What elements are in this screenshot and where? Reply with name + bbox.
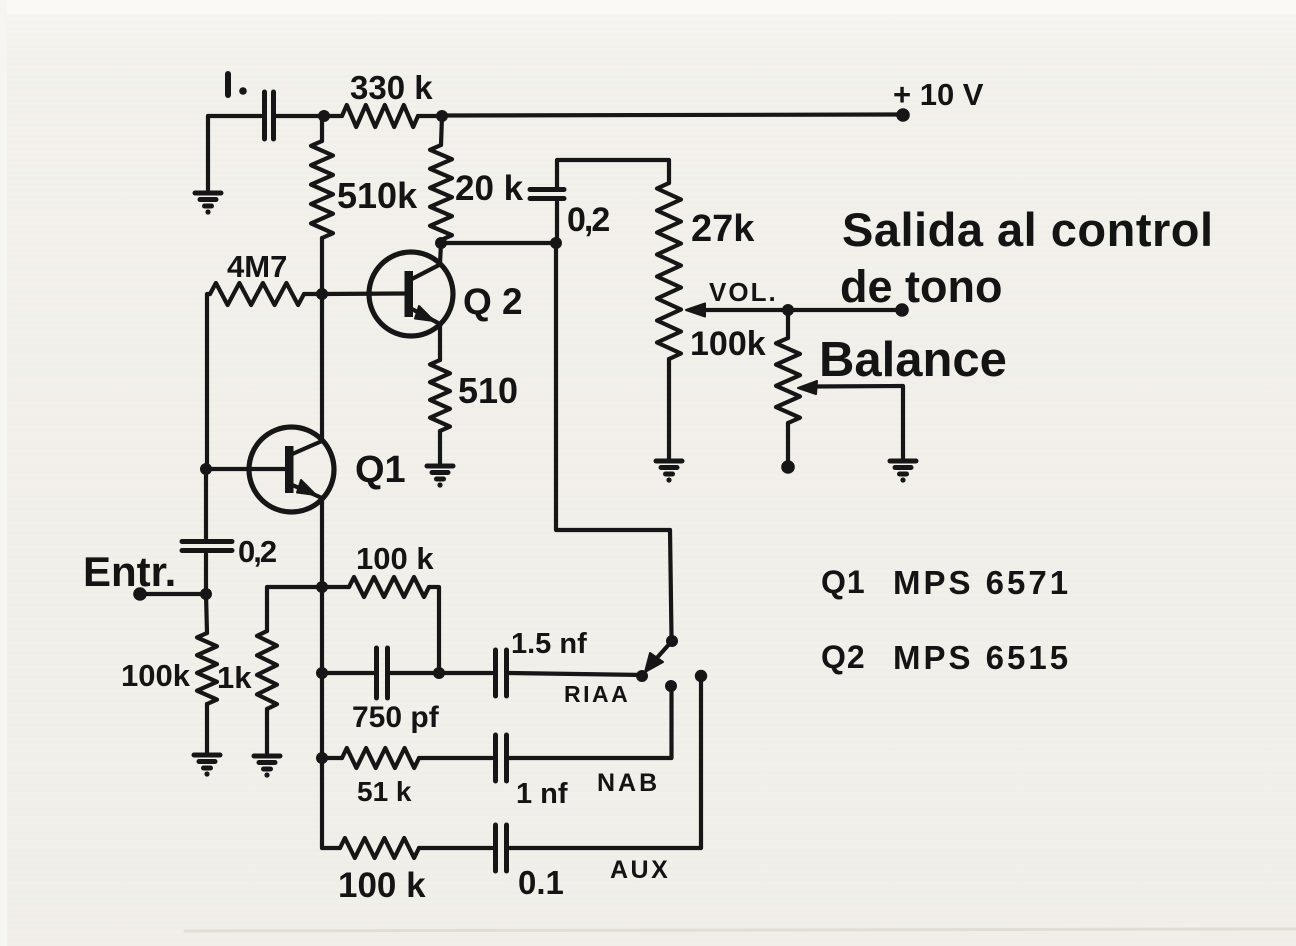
- wire node L to 51k: [322, 756, 342, 760]
- svg-text:51 k: 51 k: [357, 776, 412, 807]
- svg-text:Q2: Q2: [821, 639, 866, 675]
- wire 510 to ground: [438, 431, 442, 463]
- capacitor 1.5 nf: [496, 650, 507, 696]
- terminal +10V: [896, 108, 910, 122]
- wire 100k to 0.1: [419, 846, 492, 850]
- switch lever with arrow: [655, 641, 672, 660]
- terminal balance bottom: [781, 460, 795, 474]
- svg-text:de tono: de tono: [840, 261, 1002, 312]
- wire node H to 100k: [206, 594, 207, 633]
- wire node K to 750pf: [322, 671, 373, 675]
- wire 4M7 to node C: [304, 292, 322, 296]
- node A junction: [318, 110, 330, 122]
- transistor Q1: [206, 427, 334, 512]
- svg-text:Entr.: Entr.: [83, 548, 176, 595]
- svg-text:510: 510: [458, 370, 518, 411]
- wire +10V supply rail: [442, 115, 903, 116]
- wire node D to node E: [441, 241, 556, 245]
- svg-text:Balance: Balance: [819, 333, 1007, 387]
- svg-text:Q 2: Q 2: [463, 281, 523, 322]
- wire node G down to capacitor 0.2 input: [204, 469, 208, 538]
- wire corner to 100k bottom: [322, 846, 340, 850]
- wire 1.5nf to RIAA contact: [509, 673, 642, 675]
- svg-text:1.5 nf: 1.5 nf: [511, 628, 587, 660]
- svg-text:510k: 510k: [337, 175, 418, 216]
- resistor 510k: [311, 141, 333, 238]
- wire node E up to capacitor 0.2: [555, 202, 559, 243]
- wire top-left down to ground: [206, 116, 210, 190]
- capacitor 1 nf: [496, 735, 507, 781]
- wire node F to balance pot: [786, 310, 790, 338]
- resistor 51 k: [342, 748, 419, 768]
- svg-text:MPS 6571: MPS 6571: [893, 564, 1071, 601]
- ground G3 under 27k: [656, 461, 682, 474]
- resistor 330k: [342, 105, 418, 127]
- svg-text:100k: 100k: [690, 325, 766, 363]
- svg-text:0,2: 0,2: [567, 201, 609, 239]
- wire 20k to node D: [439, 240, 443, 243]
- ground G5: [194, 755, 220, 768]
- node F junction (wiper/balance): [782, 304, 794, 316]
- resistor 510: [430, 360, 450, 431]
- wire into capacitor 1.: [208, 114, 261, 118]
- wire node B to 20k: [441, 116, 442, 145]
- wire 0.1 to AUX contact: [509, 682, 701, 848]
- wire switch pole from node E: [556, 243, 672, 637]
- svg-text:0.1: 0.1: [518, 864, 564, 901]
- wire 1k to ground: [265, 709, 269, 753]
- wire node A to 330k: [324, 114, 342, 118]
- svg-text:100k: 100k: [121, 658, 191, 693]
- resistor 4M7: [210, 283, 304, 305]
- svg-text:AUX: AUX: [610, 856, 670, 884]
- capacitor 750 pf: [377, 648, 388, 698]
- wire cap to node H: [204, 554, 208, 594]
- capacitor 0.2 (output coupling): [530, 190, 564, 199]
- node D junction (Q2 collector): [435, 237, 447, 249]
- wire 750pf to node J: [390, 671, 439, 675]
- switch pole dot: [666, 635, 678, 647]
- svg-text:100 k: 100 k: [338, 866, 426, 905]
- svg-text:1k: 1k: [217, 660, 252, 695]
- svg-text:Q1: Q1: [821, 564, 866, 600]
- switch contact NAB: [665, 680, 677, 692]
- value label 1.: [225, 74, 231, 95]
- wire 330k to node B: [418, 114, 442, 118]
- switch contact AUX: [695, 670, 707, 682]
- capacitor 0.2 (input): [182, 542, 232, 551]
- wire cap 0.2 top over to 27k: [557, 160, 669, 187]
- wire 510k down to node C: [320, 238, 324, 294]
- svg-text:MPS 6515: MPS 6515: [893, 639, 1071, 676]
- wire Q2 emitter to 510: [438, 324, 442, 360]
- node B junction: [436, 110, 448, 122]
- node L junction (51k row): [316, 752, 328, 764]
- svg-text:VOL.: VOL.: [709, 277, 778, 307]
- wire 100k to ground: [205, 704, 209, 752]
- wire node A to 510k: [320, 116, 324, 141]
- resistor 100 k (AUX): [340, 838, 419, 858]
- wire balance pot to terminal: [786, 423, 790, 462]
- wire input terminal to node H: [140, 592, 206, 596]
- svg-text:Salida al control: Salida al control: [842, 203, 1214, 256]
- capacitor 0.1: [496, 825, 507, 871]
- svg-text:Q1: Q1: [355, 449, 406, 491]
- svg-text:4M7: 4M7: [227, 249, 287, 284]
- node H junction: [200, 588, 212, 600]
- node I junction (Q1 emitter feedback): [316, 581, 328, 593]
- terminal output to tone control: [895, 303, 909, 317]
- svg-text:RIAA: RIAA: [564, 681, 630, 707]
- ground G4 right: [890, 461, 916, 474]
- wire 4M7 left leg: [207, 294, 210, 467]
- node E junction: [550, 237, 562, 249]
- potentiometer 100k (balance): [776, 338, 800, 423]
- svg-text:100 k: 100 k: [356, 541, 434, 576]
- wire node I to 100k mid: [322, 585, 349, 589]
- wire 1nf to NAB contact: [509, 691, 672, 758]
- ground G6: [254, 756, 280, 769]
- node K junction (750pf row): [316, 667, 328, 679]
- svg-text:0,2: 0,2: [238, 534, 276, 569]
- scan smudge bottom: [185, 929, 1296, 931]
- ground G1 top-left: [195, 193, 221, 206]
- svg-text:20 k: 20 k: [455, 169, 524, 208]
- wire cap to node A: [276, 114, 324, 118]
- svg-text:NAB: NAB: [597, 769, 660, 797]
- node J junction: [433, 667, 445, 679]
- svg-text:750 pf: 750 pf: [352, 701, 440, 734]
- wire node J to 1.5nf: [439, 671, 492, 675]
- svg-text:330 k: 330 k: [350, 69, 433, 106]
- resistor 100k (feedback): [349, 577, 429, 597]
- transistor Q2: [322, 243, 453, 336]
- capacitor C1 value 1.: [265, 92, 274, 139]
- balance wiper arrow: [812, 386, 903, 458]
- ground G2 under 510: [427, 466, 453, 479]
- wire 27k to ground: [667, 359, 671, 459]
- resistor 20k: [430, 145, 452, 240]
- wire node I to 1k: [267, 587, 322, 631]
- terminal input Entr.: [133, 587, 147, 601]
- svg-text:+ 10 V: + 10 V: [893, 77, 984, 112]
- main vertical wire (510k node C down through Q1): [320, 294, 324, 848]
- wire 51k to 1nf: [419, 756, 492, 760]
- resistor 100k (input): [197, 633, 217, 704]
- node C junction (Q2 base / 4M7): [316, 288, 328, 300]
- switch contact RIAA: [636, 670, 648, 682]
- potentiometer 27k (volume): [657, 183, 681, 359]
- wire 100k mid down to node J: [429, 587, 439, 673]
- svg-text:27k: 27k: [691, 208, 755, 250]
- node G junction (Q1 base): [200, 463, 212, 475]
- svg-text:1 nf: 1 nf: [516, 778, 568, 810]
- volume wiper arrow: [700, 308, 902, 312]
- resistor 1k: [257, 631, 277, 709]
